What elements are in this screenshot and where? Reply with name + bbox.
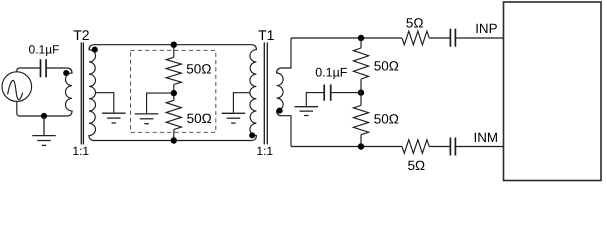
wire R1 to mid node — [173, 85, 175, 94]
mid node wire to ground inside box — [147, 93, 174, 114]
svg-text:50Ω: 50Ω — [374, 111, 399, 126]
resistor R4 50ohm — [360, 93, 362, 106]
capacitor 0.1uF right — [330, 85, 332, 101]
svg-text:50Ω: 50Ω — [374, 59, 399, 74]
capacitor INM branch — [449, 138, 451, 156]
phase dot T2 secondary — [92, 47, 98, 53]
resistor 5ohm top — [402, 31, 429, 45]
junction dot top rail — [171, 42, 177, 48]
junction dot mid right — [358, 89, 364, 95]
svg-text:50Ω: 50Ω — [187, 111, 212, 126]
wire T1 secondary bottom to INM branch — [291, 146, 402, 148]
wire 5ohm to cap INM — [429, 146, 450, 148]
svg-text:1:1: 1:1 — [72, 144, 89, 158]
phase dot T1 secondary — [277, 108, 283, 114]
resistor R1 50ohm — [166, 57, 181, 84]
svg-text:T1: T1 — [258, 27, 275, 43]
junction dot bottom rail — [41, 113, 47, 119]
svg-text:T2: T2 — [73, 27, 90, 43]
phase dot T1 primary — [249, 132, 255, 138]
junction dot bottom rail — [171, 137, 177, 143]
ADC block — [504, 2, 602, 181]
ground at T2 center tap — [102, 112, 126, 114]
T2 secondary center tap wire to ground — [95, 93, 113, 113]
AC source V1 — [2, 72, 32, 102]
wire cap to ADC INP — [455, 37, 503, 39]
T1 primary center tap wire to ground — [233, 93, 250, 113]
resistor 5ohm bottom — [402, 140, 429, 154]
svg-text:INP: INP — [475, 21, 497, 36]
ground at T1 primary tap — [222, 112, 246, 114]
ground inside dashed box — [135, 113, 159, 115]
ground under source — [43, 116, 45, 135]
svg-text:0.1µF: 0.1µF — [29, 42, 60, 56]
svg-text:50Ω: 50Ω — [186, 61, 211, 76]
dashed box around termination resistors — [131, 50, 216, 132]
transformer T1 core — [263, 42, 265, 144]
svg-text:1:1: 1:1 — [256, 144, 273, 158]
wire 5ohm to cap INP — [429, 37, 450, 39]
wire to 50ohm R3 — [360, 38, 362, 48]
wire top rail to resistor R1 — [173, 45, 175, 58]
wire source top to capacitor — [17, 68, 41, 72]
svg-text:0.1µF: 0.1µF — [315, 65, 348, 79]
resistor R2 50ohm — [173, 93, 175, 100]
capacitor 0.1uF left — [40, 59, 42, 77]
transformer T2 primary winding — [65, 68, 72, 116]
resistor R3 50ohm — [353, 48, 368, 79]
wire T2 primary bottom to source — [17, 101, 67, 116]
wire mid node to capacitor — [331, 92, 361, 94]
junction dot mid node — [171, 90, 177, 96]
transformer T2 secondary winding, top rail, T1 primary winding, bottom rail — [89, 45, 256, 141]
wire T1 secondary top to INP branch — [291, 37, 402, 39]
wire capacitor to ground — [306, 93, 324, 106]
wire cap to ADC INM — [455, 146, 503, 148]
junction dot top branch — [358, 35, 364, 41]
transformer T1 secondary winding — [277, 38, 291, 147]
phase dot T2 primary — [63, 70, 69, 76]
capacitor INP branch — [449, 29, 451, 47]
svg-text:5Ω: 5Ω — [406, 16, 424, 31]
svg-text:INM: INM — [474, 130, 499, 145]
junction dot bottom branch — [358, 143, 364, 149]
ground at right capacitor — [295, 106, 319, 108]
svg-text:5Ω: 5Ω — [408, 158, 426, 173]
wire capacitor to T2 primary — [46, 67, 67, 69]
transformer T2 core — [80, 42, 82, 144]
